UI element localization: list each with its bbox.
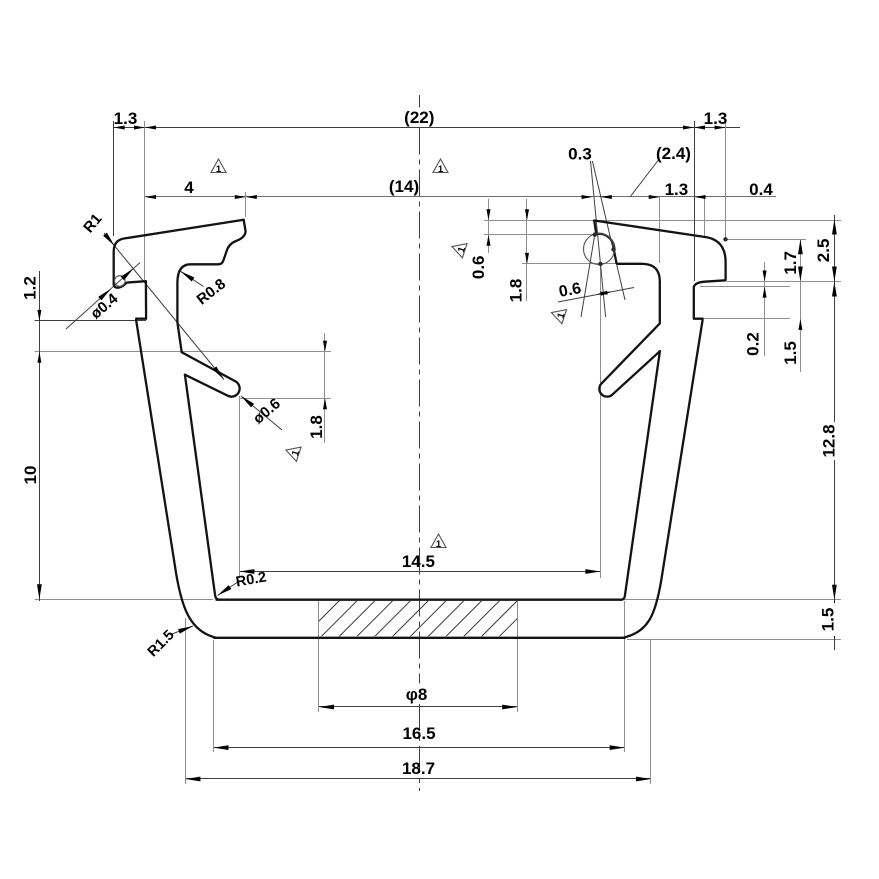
- svg-text:1: 1: [216, 164, 222, 175]
- arrows row y=127.5: [114, 126, 125, 130]
- ext line 14.5 right: [600, 264, 602, 578]
- dim line 0.2 column: [764, 262, 766, 356]
- part outline: left flange top, edge, nub, underside, lip: [114, 220, 244, 319]
- ext line 18.7 right: [650, 639, 652, 784]
- svg-text:10: 10: [21, 466, 40, 485]
- part outline: floor (base top): [217, 599, 622, 601]
- svg-text:14.5: 14.5: [402, 552, 435, 571]
- svg-text:16.5: 16.5: [402, 724, 435, 743]
- dot ball right: [611, 247, 615, 251]
- dim line 1.8 center: [526, 199, 528, 301]
- svg-text:1.3: 1.3: [114, 109, 138, 128]
- dim line 16.5: [214, 747, 625, 749]
- detail circle dia0.4: [115, 276, 126, 287]
- svg-text:0.2: 0.2: [744, 332, 763, 356]
- leader R0.2: [218, 581, 241, 596]
- svg-text:4: 4: [184, 178, 194, 197]
- arrows 1.2/10 column: [37, 310, 41, 321]
- dot ball bottom: [598, 262, 602, 266]
- svg-text:1.8: 1.8: [307, 415, 326, 439]
- part outline: right outer wall with R1.5 corner: [623, 320, 703, 638]
- svg-text:18.7: 18.7: [402, 759, 435, 778]
- arrows 1.5 upper: [798, 319, 802, 330]
- finish mark triangle 2: [433, 159, 448, 175]
- dot flange corner right: [723, 237, 727, 241]
- dim line row 4/(14)/0.3/(2.4)/1.3/0.4: [145, 196, 776, 198]
- ext line 1.7 top (dot level): [726, 239, 807, 241]
- arrows 0.6 small: [487, 209, 491, 220]
- dim line 1.7/1.5 column: [800, 239, 802, 372]
- leader dia0.4: [66, 263, 140, 329]
- part outline: right inner wall, fin root: [599, 282, 660, 397]
- svg-text:1.8: 1.8: [507, 279, 526, 303]
- ext line notch bottom left: [35, 320, 146, 322]
- ext line 0.4 right: [704, 197, 706, 236]
- arrows 0.6 slant: [596, 291, 608, 297]
- part outline: right inner wall lower, R0.2: [621, 351, 660, 600]
- ext line 16.5 right: [624, 601, 626, 752]
- ext line fin tip bottom left: [240, 398, 331, 400]
- arrows phi8: [319, 705, 334, 710]
- ext line 1.8 bottom: [522, 263, 629, 265]
- svg-text:1.5: 1.5: [819, 608, 838, 632]
- hatch phi8 section: [300, 600, 554, 640]
- centerline: [419, 95, 421, 108]
- arrows 0.2: [763, 271, 767, 282]
- leader R0.8: [181, 271, 204, 286]
- svg-text:1.5: 1.5: [781, 341, 800, 365]
- svg-text:1: 1: [436, 539, 442, 550]
- leader R1 to fin: [104, 233, 224, 380]
- detail circle lip ball: [584, 234, 615, 265]
- arrows 14.5: [239, 569, 254, 574]
- finish mark triangle 3: [450, 239, 470, 258]
- arrows 16.5: [214, 745, 229, 750]
- ext line flange left edge: [113, 121, 115, 236]
- svg-text:1.3: 1.3: [665, 180, 689, 199]
- part outline: right lip edge, ball arc, shelf, R0.8: [594, 221, 660, 282]
- ext line base bottom right: [627, 639, 841, 641]
- ext line 0.2 lower: [700, 286, 790, 288]
- ext line top surface right: [484, 220, 841, 222]
- svg-text:1.3: 1.3: [704, 109, 728, 128]
- ext line right lip / (22) right: [694, 121, 696, 281]
- ext line fin root left: [35, 351, 331, 353]
- ext line 0.6 bottom: [484, 234, 600, 236]
- dim line 2.5/12.8/1.5 column: [834, 215, 836, 650]
- finish mark triangle 4: [549, 305, 569, 324]
- arrows 18.7: [185, 777, 200, 782]
- ext line phi8 right: [517, 601, 519, 712]
- arrows 1.8 center: [525, 209, 529, 220]
- part outline: left interior neck, shelf, R0.8, inner wall: [177, 220, 245, 352]
- ext line 16.5 left: [213, 640, 215, 752]
- ext line flange underside right: [727, 281, 841, 283]
- part outline: base bottom: [214, 637, 625, 639]
- svg-text:φ8: φ8: [406, 685, 428, 704]
- svg-text:(14): (14): [389, 177, 419, 196]
- leader dia0.6: [241, 396, 282, 430]
- dim line 18.7: [185, 778, 651, 780]
- svg-text:2.5: 2.5: [814, 239, 833, 263]
- dim line 1.2/10 column: [39, 271, 41, 601]
- svg-text:0.6: 0.6: [469, 255, 488, 279]
- ext line inner wall right: [659, 197, 661, 263]
- arrows 1.8 fin: [323, 341, 327, 352]
- arrows 1.7: [798, 239, 803, 254]
- dot ball top: [593, 232, 597, 236]
- finish mark triangle 6: [431, 534, 446, 550]
- arrows row y=197: [145, 195, 156, 199]
- ext slant 0.3 right: [592, 161, 625, 300]
- ext slant 0.3 left: [591, 161, 606, 317]
- dim line 14.5: [239, 571, 600, 573]
- svg-text:1: 1: [438, 164, 444, 175]
- leader R1.5: [172, 626, 193, 634]
- finish mark triangle 1: [211, 159, 226, 175]
- finish mark triangle 5: [284, 443, 304, 462]
- white boxes under texts on dim lines: [819, 422, 838, 460]
- svg-text:(2.4): (2.4): [656, 144, 691, 163]
- svg-text:12.8: 12.8: [820, 424, 839, 457]
- ext line left lip: [144, 121, 146, 280]
- ext slant ball left: [581, 235, 595, 317]
- dim line phi8: [319, 706, 517, 708]
- arrows 2.5/12.8/1.5 column: [832, 220, 837, 235]
- arrows leaders: [103, 233, 116, 248]
- ext line floor right: [624, 599, 841, 601]
- ext line notch bottom right: [703, 318, 790, 320]
- ext line flange right edge: [725, 121, 727, 237]
- ext line 14.5 left: [239, 396, 241, 578]
- part outline: left outer wall with R1.5 corner: [136, 320, 216, 638]
- dim line row (22)/1.3: [114, 127, 740, 129]
- svg-text:0.3: 0.3: [568, 145, 592, 164]
- leader (2.4): [630, 161, 658, 198]
- ext line phi8 left: [318, 601, 320, 712]
- part outline: right flange top, edge, underside, lip: [594, 221, 725, 319]
- svg-text:0.4: 0.4: [749, 180, 773, 199]
- dim line 1.8 fin column: [324, 333, 326, 443]
- part outline: left fin (barb) with round tip: [182, 352, 240, 396]
- svg-text:1.2: 1.2: [21, 276, 40, 300]
- ext line floor left: [35, 599, 213, 601]
- svg-text:(22): (22): [404, 108, 434, 127]
- ext line left top corner: [245, 192, 247, 217]
- ext line 18.7 left: [185, 618, 187, 784]
- part outline: left inner wall lower, R0.2, floor: [185, 375, 220, 600]
- svg-text:1.7: 1.7: [781, 251, 800, 275]
- dim line 0.6 slant: [558, 288, 634, 303]
- dim line 0.6 small: [488, 199, 490, 253]
